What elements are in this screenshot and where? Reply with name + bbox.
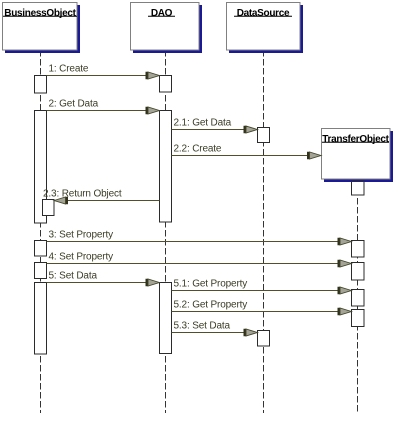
lifeline DAO: [165, 50, 167, 413]
message 2.1: Get Data: [172, 118, 258, 134]
activation BusinessObject act1: [35, 76, 47, 94]
activation DAO act1: [160, 76, 172, 93]
svg-text:5.1: Get Property: 5.1: Get Property: [174, 279, 248, 290]
svg-text:2.2: Create: 2.2: Create: [174, 144, 222, 155]
lifeline DataSource: [263, 50, 265, 413]
svg-text:4: Set Property: 4: Set Property: [49, 252, 114, 263]
message 5: Set Data: [47, 271, 160, 287]
svg-text:2: Get Data: 2: Get Data: [49, 99, 99, 110]
svg-text:2.1: Get Data: 2.1: Get Data: [174, 118, 232, 129]
svg-text:DataSource: DataSource: [237, 8, 290, 19]
activation BusinessObject act3: [35, 241, 47, 257]
object DAO: [131, 3, 203, 54]
activation TransferObject act4: [352, 263, 365, 281]
message 2: Get Data: [47, 99, 160, 115]
object DataSource: [227, 3, 304, 54]
activation DataSource act1: [258, 128, 270, 143]
message 3: Set Property: [47, 230, 352, 246]
svg-text:1: Create: 1: Create: [49, 64, 89, 75]
message 2.2: Create: [172, 144, 322, 160]
message 1: Create: [47, 64, 160, 80]
activation TransferObject act3: [352, 241, 365, 258]
lifeline BusinessObject: [40, 50, 42, 413]
svg-text:BusinessObject: BusinessObject: [4, 8, 76, 19]
lifeline TransferObject: [357, 180, 359, 413]
svg-text:5: Set Data: 5: Set Data: [49, 271, 98, 282]
activation BusinessObject act2 nested: [43, 200, 55, 216]
svg-text:TransferObject: TransferObject: [322, 134, 389, 145]
activation DAO act3: [160, 283, 172, 354]
activation TransferObject act52: [352, 310, 365, 327]
activation DAO act2: [160, 111, 172, 223]
activation BusinessObject act2: [35, 111, 47, 224]
svg-text:5.2: Get Property: 5.2: Get Property: [174, 300, 248, 311]
message 4: Set Property: [47, 252, 352, 268]
svg-text:2.3: Return Object: 2.3: Return Object: [43, 189, 122, 200]
activation BusinessObject act5: [35, 283, 47, 355]
svg-text:DAO: DAO: [151, 8, 173, 19]
svg-text:3: Set Property: 3: Set Property: [49, 230, 114, 241]
message 2.3: Return Object: [43, 189, 160, 205]
activation BusinessObject act4: [35, 263, 47, 279]
activation DataSource act2: [258, 331, 270, 347]
message 5.3: Set Data: [172, 321, 258, 337]
svg-text:5.3: Set Data: 5.3: Set Data: [174, 321, 231, 332]
object TransferObject: [322, 129, 394, 183]
message 5.1: Get Property: [172, 279, 352, 295]
message 5.2: Get Property: [172, 300, 352, 316]
object BusinessObject: [3, 3, 81, 54]
activation TransferObject act0: [352, 182, 365, 196]
activation TransferObject act51: [352, 290, 365, 307]
